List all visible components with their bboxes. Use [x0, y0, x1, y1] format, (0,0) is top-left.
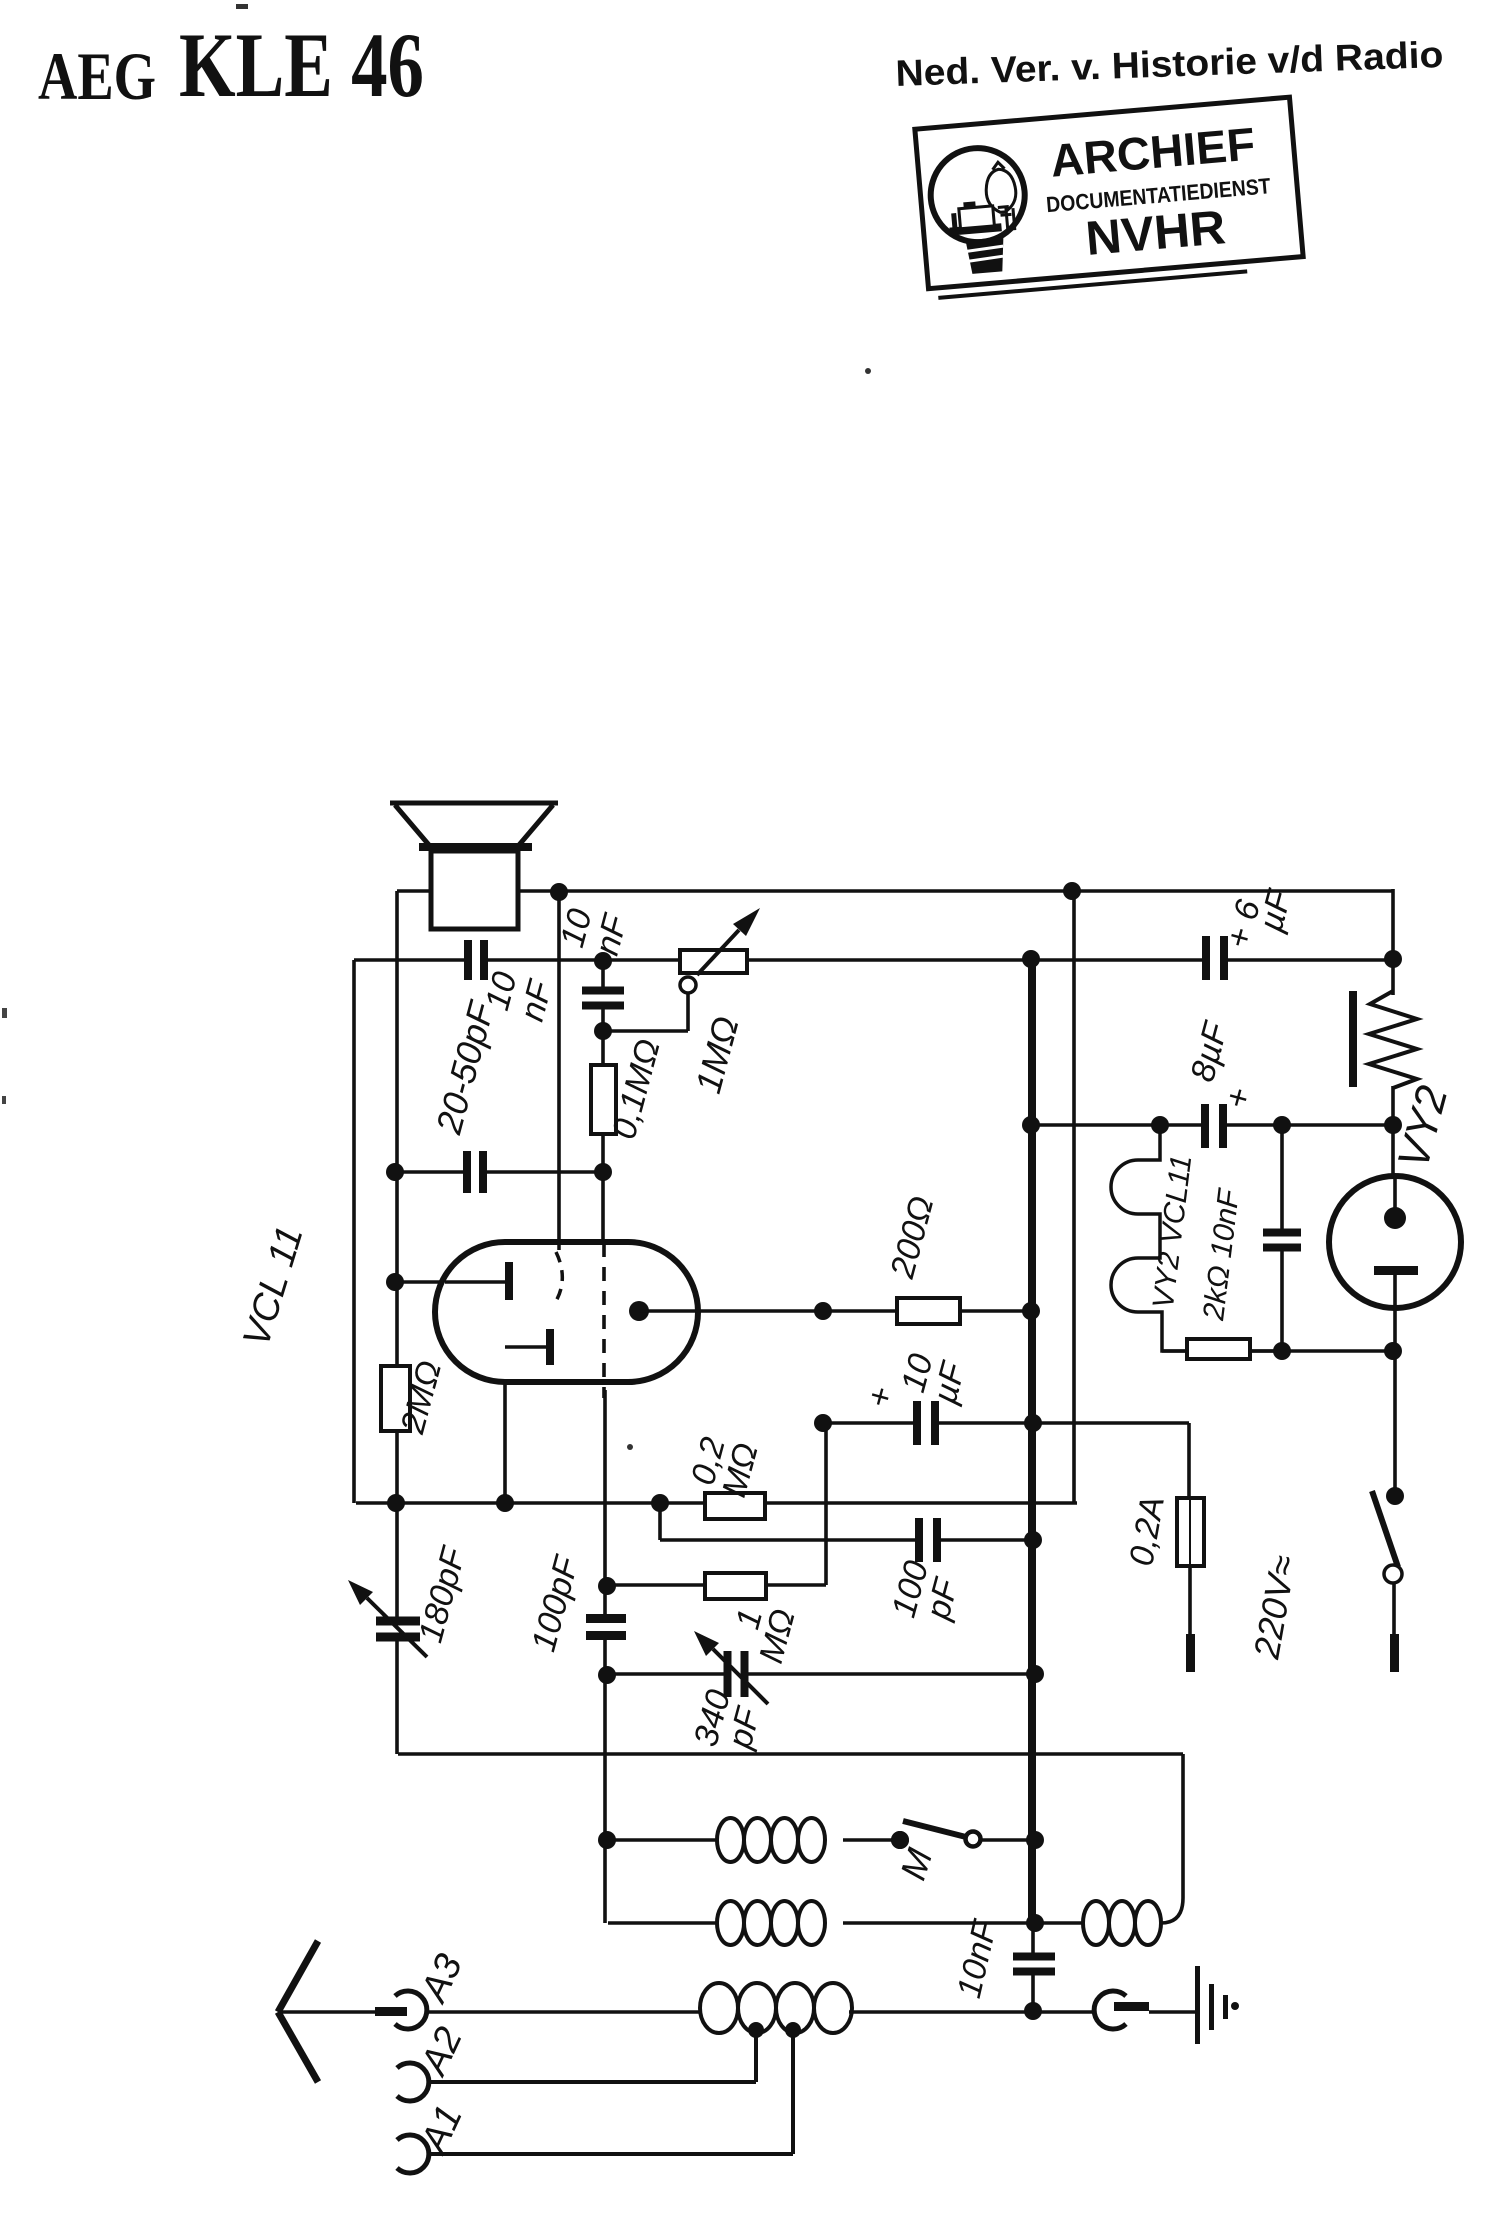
fuse 0,2A body — [1177, 1498, 1204, 1566]
junction detector / 1M line — [598, 1577, 616, 1595]
stamp logo radio table — [949, 223, 1001, 235]
wire top rail — [397, 889, 1393, 893]
wire detector column x604 lower — [603, 1390, 607, 1923]
coil L4 HT filter — [1083, 1901, 1109, 1945]
wire aerial line y2012 — [278, 2010, 407, 2014]
tube VCL11 envelope — [435, 1242, 698, 1382]
stamp logo bulb circle — [927, 144, 1029, 246]
junction cathode line / heater bypass — [1273, 1342, 1291, 1360]
capacitor 100pF detector — [586, 1622, 626, 1632]
coil L3 aerial tapped — [700, 1983, 738, 2033]
junction HT rail / bus top — [1022, 950, 1040, 968]
capacitor 10nF anode coupling — [582, 994, 624, 1003]
wire triode grid lead — [397, 1280, 506, 1284]
resistor 0,1MOhm body — [591, 1065, 616, 1134]
wire coil2 line y1923 — [608, 1921, 717, 1925]
wire switch bottom lead — [1392, 1581, 1396, 1634]
junction 10uF / 1M riser — [814, 1414, 832, 1432]
wire 100pF line y1540 — [658, 1503, 662, 1540]
heater chain VY2 VCL11 — [1111, 1125, 1187, 1351]
aerial symbol — [278, 1941, 318, 2012]
tube VCL11 pentode anode — [629, 1301, 649, 1321]
wire anode load line y1311 — [648, 1309, 1031, 1313]
wire cap line y1172 — [395, 1170, 603, 1174]
wire HT rail y959 — [354, 958, 1393, 962]
socket A3 — [395, 1991, 427, 2029]
junction screen line / heater chain — [1151, 1116, 1169, 1134]
svg-text:KLE 46: KLE 46 — [179, 14, 424, 116]
junction aerial line / bus — [1024, 2002, 1042, 2020]
junction coil L1 branch — [598, 1831, 616, 1849]
ballast resistor bar — [1349, 991, 1357, 1087]
junction HT rail / anode cap — [594, 952, 612, 970]
svg-text:AEG: AEG — [38, 38, 156, 114]
NVHR archive stamp — [915, 97, 1304, 298]
junction grid cap left — [386, 1163, 404, 1181]
junction detector / 340pF line — [598, 1666, 616, 1684]
resistor 200Ohm body — [897, 1298, 960, 1324]
junction grid return / pentode grid — [496, 1494, 514, 1512]
rectifier tube VY2 envelope — [1329, 1176, 1461, 1308]
junction screen line / rectifier lead — [1384, 1116, 1402, 1134]
junction grid return / 0,2M — [651, 1494, 669, 1512]
capacitor 10nF aerial — [1013, 1960, 1055, 1969]
scan speck top — [236, 4, 248, 9]
wire 340pF line y1674 — [607, 1672, 1035, 1676]
capacitor 10nF heater bypass — [1263, 1236, 1301, 1245]
aerial plug pin A3 — [375, 2007, 407, 2016]
resistor 2kOhm body — [1187, 1339, 1250, 1359]
junction grid return / 2M — [387, 1494, 405, 1512]
scan speck near 1MOhm — [627, 1444, 633, 1450]
thick HT bus — [1028, 959, 1036, 1923]
resistor 1MOhm grid leak body — [705, 1573, 766, 1599]
junction switch M contact — [891, 1831, 909, 1849]
stamp logo lamp base — [966, 237, 1007, 274]
junction cathode line / rectifier — [1384, 1342, 1402, 1360]
speaker — [390, 801, 558, 806]
wire right column x1074 — [1072, 891, 1076, 1503]
wire 1M line y1585 — [607, 1583, 826, 1587]
trimmer capacitor 20-50pF — [471, 940, 481, 980]
junction anode load / bus — [1022, 1302, 1040, 1320]
junction anode cap / pot wiper — [594, 1022, 612, 1040]
resistor 2MOhm body — [381, 1366, 410, 1431]
wire bus bottom to earth — [1031, 1923, 1035, 2011]
socket A1 — [397, 2135, 429, 2173]
wire detector column x604 upper — [601, 961, 605, 1243]
wire left border — [352, 960, 356, 1503]
wire coil4 line — [1036, 1921, 1083, 1925]
tube VCL11 triode anode dashed — [553, 1252, 562, 1306]
wire long bottom line y1754 — [398, 1752, 1183, 1756]
junction anode / 10uF branch — [814, 1302, 832, 1320]
variable capacitor 180pF — [376, 1625, 420, 1634]
wire A2 line — [429, 2080, 756, 2084]
wire speaker column x559 — [557, 891, 561, 1243]
mains switch — [1386, 1487, 1404, 1505]
scan speck left margin — [2, 1008, 7, 1018]
mains plug pin right — [1390, 1634, 1399, 1672]
junction grid cap right — [594, 1163, 612, 1181]
junction coil L2 line / bus — [1026, 1914, 1044, 1932]
capacitor 6uF electrolytic — [1209, 936, 1221, 980]
stamp logo inner lamp — [984, 168, 1017, 213]
volume potentiometer 1MOhm — [680, 950, 747, 973]
junction HT rail / ballast — [1384, 950, 1402, 968]
mains plug pin left — [1186, 1634, 1195, 1672]
wire pot wiper link — [603, 1029, 688, 1033]
junction coil L1 line / bus — [1026, 1831, 1044, 1849]
wire heater feed x1282 — [1280, 1125, 1284, 1351]
coil L3 tap A1 — [785, 2022, 801, 2038]
socket A2 — [397, 2063, 429, 2101]
coil L2 tuning — [717, 1901, 744, 1945]
wire cathode line y1351 — [1162, 1349, 1393, 1353]
wire screen line y1125 — [1031, 1123, 1393, 1127]
wire pentode grid lead — [503, 1348, 507, 1503]
junction top rail / grid return riser — [1063, 882, 1081, 900]
ground symbol — [1195, 1966, 1200, 2044]
capacitor 8uF electrolytic — [1208, 1104, 1220, 1148]
wire A1 line — [429, 2152, 793, 2156]
ballast resistor zigzag — [1369, 991, 1417, 1088]
variable capacitor 340pF — [731, 1651, 742, 1697]
rectifier VY2 anode — [1393, 1176, 1397, 1212]
wire 10uF line y1423 to fuse corner — [823, 1421, 1189, 1425]
rectifier VY2 cathode — [1374, 1266, 1418, 1275]
coil L1 feedback — [717, 1818, 744, 1862]
junction 340pF line / bus — [1026, 1665, 1044, 1683]
switch M wave change — [891, 1831, 909, 1849]
coil L3 tap A2 — [748, 2022, 764, 2038]
wire coil1 line y1840 — [607, 1838, 717, 1842]
tube VCL11 triode grid — [445, 1280, 508, 1284]
earth plug pin — [1114, 2002, 1149, 2011]
scan speck middle — [865, 368, 871, 374]
capacitor 10nF grid y1172 — [470, 1151, 480, 1193]
wire mains right column x1393 — [1391, 889, 1395, 995]
junction screen line / heater bypass — [1273, 1116, 1291, 1134]
junction 10uF line / bus — [1024, 1414, 1042, 1432]
tube VCL11 partition dashed — [602, 1243, 606, 1398]
junction 100pF line / bus — [1024, 1531, 1042, 1549]
junction speaker / top rail — [550, 883, 568, 901]
capacitor 100pF coupling — [922, 1518, 934, 1562]
wire fuse bottom lead — [1188, 1566, 1192, 1634]
junction triode grid node — [386, 1273, 404, 1291]
earth socket — [1094, 1991, 1126, 2029]
junction screen line / bus — [1022, 1116, 1040, 1134]
tube VCL11 pentode grid — [546, 1329, 554, 1365]
capacitor 10uF electrolytic — [920, 1401, 932, 1445]
resistor 0,2MOhm body — [705, 1493, 765, 1519]
wire grid return line y1503 — [356, 1501, 1077, 1505]
wire left column x397 — [395, 891, 399, 1754]
